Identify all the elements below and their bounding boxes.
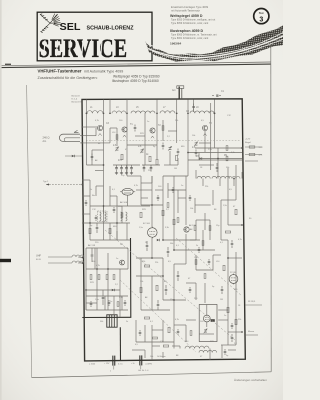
wire	[199, 164, 214, 166]
wire	[126, 100, 128, 177]
wire	[85, 290, 87, 310]
junction	[156, 112, 158, 114]
transistor T6	[120, 260, 125, 265]
wire	[85, 248, 87, 310]
inductor L1	[87, 111, 103, 114]
wire	[188, 152, 242, 154]
wire	[144, 151, 146, 165]
svg-text:1k Masse: 1k Masse	[157, 356, 166, 358]
emitter arrow	[98, 134, 101, 136]
resistor R2	[149, 156, 151, 161]
capacitor C63	[231, 323, 234, 329]
diode D2	[112, 289, 115, 292]
folded dipole antenna	[59, 130, 80, 141]
resistor R13	[90, 275, 92, 280]
capacitor C48	[95, 215, 98, 221]
capacitor C7	[150, 165, 153, 172]
capacitor C62	[224, 349, 227, 355]
junction	[241, 224, 243, 226]
resistor R33	[227, 307, 229, 312]
svg-text:a 1500: a 1500	[89, 364, 96, 366]
wire	[127, 144, 157, 146]
capacitor C45	[134, 125, 137, 132]
wire	[245, 160, 258, 162]
wire	[204, 283, 206, 303]
IF coil L12	[197, 176, 210, 178]
svg-text:3,3k: 3,3k	[231, 152, 235, 154]
wire	[141, 182, 152, 184]
svg-text:1n: 1n	[181, 185, 183, 187]
resistor R15	[106, 275, 108, 280]
junction	[214, 112, 216, 114]
wire	[135, 320, 137, 342]
svg-text:56k: 56k	[226, 167, 229, 169]
wire	[185, 325, 187, 342]
wire	[82, 135, 96, 137]
wire	[199, 158, 242, 160]
tuner module outline	[82, 99, 245, 361]
wire	[90, 205, 150, 207]
svg-text:1M: 1M	[220, 299, 223, 301]
wire	[144, 325, 146, 342]
IF transformer	[98, 211, 108, 222]
wire	[132, 349, 145, 351]
wire	[219, 179, 221, 187]
output stage shield box	[199, 305, 217, 342]
capacitor C50	[90, 301, 93, 307]
svg-text:4,7k: 4,7k	[238, 239, 242, 241]
wire	[163, 299, 186, 301]
svg-text:Regel: Regel	[245, 142, 251, 144]
resistor R3	[176, 155, 178, 160]
IF output coil L16	[199, 350, 217, 352]
junction	[96, 268, 98, 270]
wire	[92, 149, 104, 151]
wire	[195, 170, 197, 179]
trimmer capacitor C12	[168, 146, 172, 150]
svg-text:1,5k: 1,5k	[223, 205, 227, 207]
wire	[174, 249, 215, 251]
wire	[195, 147, 242, 149]
resistor R40	[160, 345, 172, 347]
wire	[173, 176, 175, 250]
junction	[86, 112, 88, 114]
svg-text:22k: 22k	[205, 186, 208, 188]
junction	[82, 257, 84, 259]
wire	[185, 234, 187, 264]
junction	[241, 147, 243, 149]
wire	[186, 319, 196, 321]
junction	[187, 152, 189, 154]
capacitor C25	[165, 285, 168, 295]
svg-text:4,7k: 4,7k	[259, 155, 263, 157]
wire	[151, 355, 153, 360]
capacitor C43	[195, 150, 198, 157]
wire	[136, 189, 152, 191]
svg-text:UHF: UHF	[36, 255, 41, 258]
svg-text:VHF/UHF-Tastentuner: VHF/UHF-Tastentuner	[38, 69, 82, 74]
svg-text:1n: 1n	[110, 301, 112, 303]
ground	[130, 172, 133, 175]
svg-text:Ant.: Ant.	[43, 140, 47, 143]
wire	[141, 309, 170, 311]
wire	[204, 131, 206, 152]
wire	[80, 135, 82, 137]
wire	[228, 224, 242, 226]
wire	[113, 366, 115, 370]
wire	[151, 325, 153, 355]
wire	[87, 164, 104, 166]
wire	[80, 142, 82, 144]
wire	[167, 183, 169, 198]
wire	[196, 269, 213, 271]
resistor R57	[167, 203, 169, 208]
wire	[173, 264, 175, 300]
wire	[86, 289, 120, 291]
wire	[109, 128, 111, 143]
svg-text:SEL: SEL	[60, 22, 81, 33]
junction	[162, 275, 164, 277]
capacitor C18	[91, 248, 94, 262]
junction	[85, 289, 87, 291]
wire	[162, 258, 164, 300]
tuning gang dashed link	[86, 140, 240, 142]
wire	[235, 300, 237, 345]
wire	[152, 329, 163, 331]
wire	[218, 319, 228, 321]
resistor R55	[195, 260, 197, 265]
chassis partition wall	[82, 238, 131, 318]
wire	[78, 262, 82, 264]
wire	[212, 255, 214, 270]
capacitor Ck	[216, 163, 219, 172]
resistor R20	[140, 212, 142, 217]
wire	[142, 164, 160, 166]
svg-text:4,7k: 4,7k	[96, 265, 100, 267]
svg-text:22k: 22k	[238, 319, 241, 321]
wire	[82, 256, 84, 258]
wire	[162, 176, 164, 183]
resistor R60	[153, 337, 158, 339]
wire	[113, 296, 115, 314]
svg-text:31 V: 31 V	[259, 147, 264, 149]
wire	[103, 171, 105, 241]
capacitor C53	[172, 187, 175, 193]
wire	[82, 126, 97, 128]
wire	[198, 153, 200, 161]
wire	[156, 150, 158, 159]
wire	[233, 179, 235, 187]
wire	[245, 154, 262, 156]
wire	[245, 334, 258, 336]
capacitor C23	[157, 300, 160, 310]
IF coil L13	[212, 176, 230, 178]
wire	[86, 309, 128, 311]
wire	[96, 290, 98, 310]
junction	[126, 112, 128, 114]
capacitor C54	[189, 195, 192, 201]
wire	[109, 100, 111, 114]
wire	[82, 195, 90, 197]
svg-text:22k: 22k	[155, 262, 158, 264]
junction	[86, 112, 88, 114]
junction	[81, 135, 83, 137]
inductor L2	[112, 111, 126, 113]
svg-text:AF 139: AF 139	[88, 244, 96, 247]
capacitor C60	[139, 330, 142, 336]
wire	[169, 151, 171, 165]
gang switch link	[105, 230, 235, 340]
resistor R22	[173, 219, 175, 224]
capacitor C24	[177, 271, 180, 281]
wire	[109, 223, 111, 240]
wire	[155, 189, 163, 191]
capacitor C31	[231, 240, 234, 248]
wire	[206, 305, 208, 316]
junction	[151, 257, 153, 259]
wire	[177, 190, 179, 213]
svg-text:4,7k: 4,7k	[134, 185, 138, 187]
ground	[125, 172, 128, 175]
wire	[91, 150, 93, 165]
svg-text:1n: 1n	[116, 258, 118, 260]
wire	[195, 255, 197, 270]
plug contact b	[139, 355, 142, 365]
svg-text:K 2–4: K 2–4	[72, 99, 78, 101]
capacitor C40	[162, 143, 165, 150]
junction	[241, 331, 243, 333]
wire	[140, 176, 142, 205]
resistor R4	[156, 159, 158, 164]
svg-text:+ U₂: + U₂	[131, 363, 135, 365]
wire	[245, 146, 262, 148]
wire	[141, 204, 163, 206]
wire	[190, 239, 196, 241]
wire	[127, 175, 141, 177]
svg-text:10k: 10k	[190, 208, 193, 210]
svg-text:3: 3	[259, 17, 263, 24]
capacitor C32	[221, 286, 224, 294]
capacitor C52	[124, 300, 127, 306]
test point arrow	[43, 181, 82, 186]
wire	[116, 231, 118, 240]
capacitor C19	[102, 290, 105, 305]
wire	[103, 206, 105, 214]
resistor R54	[202, 241, 204, 246]
svg-text:Ant: Ant	[172, 89, 176, 92]
capacitor C41	[177, 149, 180, 156]
wire	[194, 198, 196, 213]
IF coil L14	[228, 177, 240, 179]
ground	[115, 172, 118, 175]
wire	[178, 197, 186, 199]
transistor T1	[97, 125, 102, 130]
wire	[151, 238, 153, 258]
resistor R61	[190, 331, 192, 336]
wire	[228, 349, 236, 351]
wire	[110, 195, 117, 197]
gang switch link 3	[176, 238, 242, 296]
svg-text:Type 8059 D-Multinorm, color,: Type 8059 D-Multinorm, color, card	[171, 22, 209, 25]
resistor R51	[117, 302, 119, 307]
wire	[89, 180, 91, 240]
wire	[86, 100, 88, 114]
wire	[162, 120, 164, 141]
svg-text:60 Ω: 60 Ω	[36, 259, 41, 261]
svg-text:Ersatzteil-Unterlagen Type 409: Ersatzteil-Unterlagen Type 4099	[171, 5, 209, 9]
wire	[168, 189, 186, 191]
oscillator tube Ro1	[120, 188, 135, 195]
capacitor C55	[198, 247, 201, 253]
wire	[136, 257, 163, 259]
wire	[217, 148, 219, 179]
wire	[228, 331, 242, 333]
transistor T3	[150, 128, 155, 133]
svg-text:Weltspiegel 4059 D: Weltspiegel 4059 D	[170, 14, 203, 18]
wire	[199, 142, 211, 144]
wire	[96, 248, 98, 290]
capacitor C5	[130, 165, 133, 172]
capacitor C42	[192, 104, 195, 111]
resistor R50	[121, 213, 123, 218]
wire	[151, 176, 153, 183]
wire	[195, 220, 197, 240]
wire	[95, 128, 97, 136]
junction	[162, 239, 164, 241]
junction	[107, 268, 109, 270]
capacitor C47	[85, 200, 88, 206]
resistor R53	[209, 226, 211, 231]
svg-text:Blatt: Blatt	[259, 11, 264, 15]
tube Ro4	[229, 273, 238, 285]
capacitor C57	[189, 287, 192, 293]
diode D1	[65, 155, 82, 158]
wire	[163, 175, 188, 177]
wire	[188, 159, 242, 161]
wire	[214, 100, 216, 149]
wire	[109, 186, 111, 206]
junction	[81, 142, 83, 144]
wire	[144, 350, 146, 358]
wire	[151, 176, 153, 227]
resistor R58	[177, 218, 179, 223]
svg-text:Dr: Dr	[126, 321, 128, 323]
antenna input terminal	[177, 86, 184, 99]
wire	[235, 165, 237, 200]
capacitor C22	[167, 247, 170, 257]
junction	[89, 222, 91, 224]
resistor R32	[223, 265, 225, 270]
wire	[209, 349, 211, 361]
wire	[121, 296, 123, 310]
wire	[245, 304, 262, 306]
junction	[81, 184, 83, 186]
wire	[164, 164, 178, 166]
wire	[241, 172, 243, 179]
svg-text:SCHAUB-LORENZ: SCHAUB-LORENZ	[87, 25, 135, 31]
wire	[141, 197, 148, 199]
diode D3	[157, 239, 160, 242]
resistor R42	[249, 153, 255, 155]
svg-text:EC 900: EC 900	[143, 223, 151, 225]
trimmer capacitor C13	[194, 142, 198, 146]
wire	[95, 186, 97, 196]
wire	[177, 158, 179, 165]
wire	[210, 103, 212, 170]
capacitor C44	[91, 154, 94, 161]
wire	[206, 322, 208, 327]
junction	[187, 112, 189, 114]
junction	[173, 299, 175, 301]
svg-text:22k: 22k	[142, 261, 145, 263]
wire	[144, 113, 146, 151]
svg-text:56k: 56k	[170, 243, 173, 245]
capacitor C49	[113, 207, 116, 213]
svg-text:1n: 1n	[224, 315, 226, 317]
junction	[103, 205, 105, 207]
transistor T2	[122, 127, 127, 132]
wire	[235, 252, 237, 300]
ground	[120, 172, 123, 175]
wire	[135, 135, 145, 137]
wire	[140, 258, 142, 310]
tube Ro3	[203, 314, 210, 324]
svg-text:Bereich III: Bereich III	[72, 101, 82, 104]
resistor R31	[225, 231, 230, 233]
svg-text:10k: 10k	[140, 281, 143, 283]
transistor T4	[202, 125, 207, 130]
wire	[82, 179, 90, 181]
wire	[202, 179, 204, 187]
wire	[193, 100, 195, 113]
wire	[218, 309, 228, 311]
wire	[162, 352, 164, 358]
wire	[221, 344, 236, 346]
wire	[173, 300, 175, 342]
note text	[72, 95, 82, 104]
resistor R14	[98, 275, 100, 280]
resistor R16	[113, 275, 115, 280]
transistor T7	[184, 227, 189, 232]
svg-text:1M: 1M	[174, 168, 177, 170]
junction	[217, 158, 219, 160]
wire	[127, 248, 129, 269]
wire	[221, 239, 228, 241]
junction	[227, 257, 229, 259]
connector strip St1	[107, 315, 117, 327]
svg-text:10k: 10k	[192, 135, 195, 137]
wire	[196, 219, 210, 221]
wire	[163, 239, 200, 241]
junction	[173, 249, 175, 251]
wire	[103, 100, 105, 171]
wire	[162, 183, 164, 240]
svg-text:10k: 10k	[150, 356, 153, 358]
wire	[104, 296, 106, 310]
wire	[195, 283, 197, 300]
junction	[233, 178, 235, 180]
resistor R12	[109, 228, 111, 233]
wire	[221, 345, 223, 358]
svg-text:1,5n: 1,5n	[208, 149, 212, 151]
svg-text:Weltspiegel 4059 D Typ 815060: Weltspiegel 4059 D Typ 815060	[113, 74, 160, 78]
svg-text:22k: 22k	[175, 120, 178, 122]
wire	[227, 240, 229, 300]
wire	[220, 200, 222, 240]
wire	[185, 176, 187, 225]
svg-text:3,3k: 3,3k	[119, 297, 123, 299]
resistor R44	[226, 146, 228, 151]
